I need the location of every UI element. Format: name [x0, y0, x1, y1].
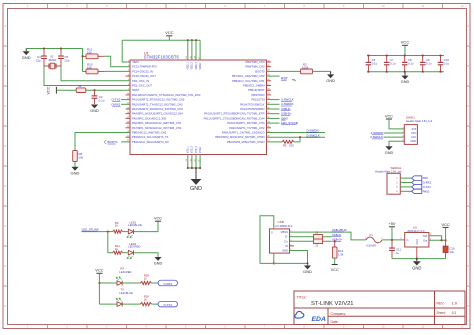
- svg-text:GND: GND: [410, 139, 416, 143]
- wire U1 to D-SWDIO: [267, 132, 326, 134]
- junction dot C3 top: [94, 89, 96, 91]
- svg-text:VDD_1: VDD_1: [188, 61, 190, 69]
- svg-text:PA8/USART1_CK/TIM1_CH1/MCO: PA8/USART1_CK/TIM1_CH1/MCO: [222, 131, 265, 135]
- net label O-RX1 (U1 left): [121, 103, 130, 105]
- junction dot D-SWCLK / R5: [299, 136, 301, 138]
- frame ticks left: [3, 46, 8, 286]
- net label 3-SWDIO (U1 right): [267, 103, 280, 105]
- svg-text:1.0: 1.0: [452, 300, 458, 305]
- net flag O-RX1: [158, 280, 177, 286]
- svg-text:G: G: [271, 231, 273, 234]
- junction dot USB gnd: [307, 263, 309, 265]
- svg-text:PA9: PA9: [423, 176, 429, 180]
- title block row divider: [294, 307, 465, 309]
- svg-text:VBUS: VBUS: [281, 230, 289, 234]
- wire U1 to D-SWCLK: [267, 136, 326, 138]
- svg-text:NRST: NRST: [132, 88, 140, 92]
- svg-text:CLK: CLK: [411, 135, 416, 139]
- capacitor C6: [367, 56, 369, 63]
- USB pin numbers: [290, 231, 292, 251]
- svg-text:PB9/TIM4_CH4: PB9/TIM4_CH4: [245, 60, 265, 64]
- wire VCC to R6: [56, 89, 76, 91]
- svg-text:AMS1117-3.3: AMS1117-3.3: [407, 229, 425, 233]
- USB pin names: [281, 230, 289, 252]
- svg-text:VDD_2: VDD_2: [192, 61, 194, 69]
- svg-text:PA6/SPI1_MISO/ADC12_IN6/TIM3_C: PA6/SPI1_MISO/ADC12_IN6/TIM3_CH1: [132, 121, 182, 125]
- U1 bottom pin names VSS: [188, 145, 202, 153]
- wire R2 to ground: [313, 70, 331, 72]
- svg-text:GND: GND: [326, 79, 335, 83]
- svg-text:GND: GND: [303, 269, 312, 274]
- junction dot VCC column: [445, 239, 447, 241]
- svg-text:PA11/USART1_CTS/USBDM/CAN_RX/T: PA11/USART1_CTS/USBDM/CAN_RX/TIM1_CH4: [204, 116, 265, 120]
- frame section numbers top: [27, 5, 464, 8]
- capacitor C11: [391, 240, 393, 248]
- wire VCC stem: [168, 36, 170, 40]
- capacitor C8: [404, 56, 406, 63]
- wire branch down to TX LED: [98, 283, 100, 304]
- wire R15 to U1: [104, 70, 130, 72]
- svg-text:VCC: VCC: [401, 40, 410, 45]
- svg-text:ID: ID: [285, 244, 288, 248]
- svg-text:3V3: 3V3: [412, 127, 417, 131]
- EDA logo cloud: [295, 311, 304, 318]
- svg-text:BOOT1: BOOT1: [108, 140, 119, 144]
- U1 right pin numbers: [267, 60, 270, 142]
- svg-text:VCC: VCC: [95, 268, 103, 273]
- wire VCC down to out node: [445, 227, 447, 240]
- svg-text:O-TX1: O-TX1: [423, 185, 432, 189]
- svg-text:0.1u: 0.1u: [426, 61, 432, 65]
- wire regulator ground rail: [392, 258, 446, 260]
- svg-text:PB8/TIM4_CH3: PB8/TIM4_CH3: [245, 65, 265, 69]
- junction dot regulator gnd: [416, 258, 418, 260]
- frame section letters left: [4, 25, 6, 308]
- power flag VCC (cap bank): [402, 44, 408, 46]
- svg-text:10k: 10k: [87, 51, 92, 55]
- svg-text:USB-D-: USB-D-: [281, 107, 291, 111]
- svg-text:VCC: VCC: [331, 268, 339, 272]
- svg-text:PB3/JTDO: PB3/JTDO: [252, 93, 265, 97]
- net label 3-SWCLK (SWD1): [384, 136, 405, 138]
- power flag VCC (regulator output): [443, 226, 449, 228]
- svg-text:PA1/USART2_RTS/ADC12_IN1/TIM2_: PA1/USART2_RTS/ADC12_IN1/TIM2_CH2: [132, 98, 185, 102]
- title block rev column divider: [434, 291, 436, 325]
- ground GND (LED2): [154, 257, 161, 261]
- net label LED_STLINK (U1 right): [267, 122, 280, 124]
- svg-text:PB4/JNTRST: PB4/JNTRST: [248, 88, 265, 92]
- net label 3-SWCLK (U1 right): [267, 99, 280, 101]
- capacitor C7: [386, 56, 388, 63]
- svg-text:Out: Out: [423, 238, 428, 242]
- wire branch down to R11: [107, 232, 109, 253]
- svg-text:C: C: [467, 105, 469, 108]
- svg-text:LED-RED: LED-RED: [119, 270, 131, 274]
- svg-text:LED-RED: LED-RED: [128, 245, 140, 249]
- svg-text:0.1u: 0.1u: [444, 61, 450, 65]
- svg-text:LED-BLUE: LED-BLUE: [119, 291, 133, 295]
- svg-text:LED_STLINK: LED_STLINK: [82, 227, 99, 231]
- capacitor C5: [60, 49, 62, 57]
- U1 top pin names VDD: [188, 61, 202, 69]
- U1 left pin names: [132, 60, 201, 144]
- svg-text:PA15/JTDI: PA15/JTDI: [252, 98, 265, 102]
- net flag O-TX1: [158, 301, 177, 307]
- net label USB-D+ (U1 right): [267, 113, 280, 115]
- wire gnd rail to caps: [26, 48, 82, 50]
- USB ID pin stub: [290, 245, 295, 247]
- svg-text:1/1: 1/1: [452, 311, 457, 315]
- svg-text:R5: R5: [283, 144, 287, 148]
- svg-text:PA10/USART1_RX/TIM1_CH3: PA10/USART1_RX/TIM1_CH3: [227, 121, 265, 125]
- wire R26 to O-TX1 flag: [152, 303, 159, 305]
- wire VCC to SWD1 pin1: [389, 119, 404, 129]
- svg-text:VCC: VCC: [441, 222, 450, 227]
- capacitor C3: [94, 90, 96, 96]
- svg-text:PA3/USART2_RX/ADC12_IN3/TIM2_C: PA3/USART2_RX/ADC12_IN3/TIM2_CH4: [132, 107, 183, 111]
- wire USB GND pin down: [290, 251, 308, 266]
- wire R5 up to D-SWCLK: [294, 137, 300, 142]
- wire VCC rail: [122, 39, 200, 41]
- wire U1 to R2: [267, 70, 301, 72]
- svg-text:0.5A/6V: 0.5A/6V: [366, 244, 376, 248]
- SERIAL pin numbers: [396, 177, 398, 193]
- svg-text:1.5k: 1.5k: [338, 253, 344, 257]
- net label USB-D- (U1 right): [267, 108, 280, 110]
- net label SWO (U1 right): [267, 117, 280, 119]
- connector SWD1 body: [404, 125, 417, 145]
- svg-text:PB15/SPI2_MOSI/I2S2_SD/TIM1_CH: PB15/SPI2_MOSI/I2S2_SD/TIM1_CH3N: [215, 135, 264, 139]
- wire VCC rail drop to U1 VBAT: [122, 40, 130, 62]
- wire R28 to O-RX1 flag: [152, 282, 159, 284]
- svg-text:GND: GND: [90, 109, 99, 113]
- resistor R26: [140, 303, 151, 306]
- svg-text:D-SWCLK: D-SWCLK: [307, 133, 320, 137]
- net flag O-RX1: [412, 180, 422, 184]
- wire U1 to R5: [267, 141, 283, 143]
- svg-text:H: H: [467, 305, 469, 308]
- svg-text:PB7/I2C1_SDA/TIM4_CH2: PB7/I2C1_SDA/TIM4_CH2: [232, 74, 265, 78]
- svg-text:BOOT0: BOOT0: [255, 69, 265, 73]
- title block company/date divider: [328, 315, 465, 317]
- svg-text:+5V: +5V: [388, 221, 395, 226]
- svg-text:0.1u: 0.1u: [99, 98, 105, 102]
- wire USB D+ row: [290, 240, 332, 242]
- net flag PA9: [412, 176, 422, 180]
- net label 3-SWDIO (SWD1): [384, 132, 405, 134]
- svg-text:3-SWDIO: 3-SWDIO: [281, 102, 294, 106]
- wire SWD1 GND pin to ground: [389, 141, 404, 146]
- capacitor C16 (tantalum): [445, 240, 447, 246]
- U1 left pin numbers: [127, 60, 130, 142]
- svg-text:PA4/SPI1_NSS/USART2_CK/ADC12_I: PA4/SPI1_NSS/USART2_CK/ADC12_IN4: [132, 112, 183, 116]
- op-amp U1 body (STM32F103CBT6 MCU): [130, 60, 267, 155]
- wire R14 to VCC flag: [334, 258, 336, 264]
- svg-text:PA0-WKUP/USART2_CTS/ADC12_IN0/: PA0-WKUP/USART2_CTS/ADC12_IN0/TIM2_CH1_E…: [132, 93, 201, 97]
- title block outline: [294, 291, 465, 325]
- svg-text:100k: 100k: [302, 66, 309, 70]
- U1 left pin stubs: [126, 76, 131, 137]
- ground GND (R2): [327, 74, 334, 78]
- resistor R12: [83, 55, 87, 57]
- wires VCC rail to U1 VDD pins: [187, 40, 189, 60]
- svg-text:G: G: [4, 265, 6, 268]
- resistor R14: [332, 247, 337, 258]
- wire cap bank rail to ground: [404, 72, 406, 76]
- wire VSS to ground symbol: [195, 168, 197, 179]
- svg-text:G: G: [467, 265, 469, 268]
- junction dot C4 top: [43, 48, 45, 50]
- svg-text:USB-D+: USB-D+: [332, 238, 343, 242]
- svg-text:GND: GND: [71, 171, 80, 176]
- svg-text:VCC: VCC: [154, 216, 162, 221]
- wire VCC to RX LED: [98, 273, 100, 283]
- net label RST: [267, 75, 280, 77]
- svg-text:D+: D+: [284, 239, 288, 243]
- svg-text:10k: 10k: [87, 66, 92, 70]
- svg-text:PC14-OSC32_IN: PC14-OSC32_IN: [132, 69, 153, 73]
- wire crystal right node to U1 OSC pin: [61, 66, 130, 81]
- ground GND (USB): [304, 266, 311, 270]
- capacitor C4: [43, 49, 45, 57]
- svg-text:0.1u: 0.1u: [390, 61, 396, 65]
- wire U3 Tab to output node: [429, 236, 442, 241]
- svg-text:Sheet:: Sheet:: [437, 311, 446, 315]
- LED RX (red): [117, 281, 122, 286]
- svg-text:O-TX1: O-TX1: [112, 98, 121, 102]
- wire LED2 to ground: [134, 253, 159, 257]
- svg-text:PA14/JTCK/SWCLK: PA14/JTCK/SWCLK: [240, 102, 265, 106]
- svg-text:D: D: [467, 145, 469, 148]
- svg-text:PA9/USART1_TX/TIM1_CH2: PA9/USART1_TX/TIM1_CH2: [229, 126, 265, 130]
- svg-text:PB14/SPI2_MISO/TIM1_CH2N: PB14/SPI2_MISO/TIM1_CH2N: [227, 140, 265, 144]
- svg-text:PA7/SPI1_MOSI/ADC12_IN7/TIM3_C: PA7/SPI1_MOSI/ADC12_IN7/TIM3_CH2: [132, 126, 182, 130]
- wire R11 to LED2: [123, 252, 129, 254]
- wire R6 to U1 NRST: [86, 89, 130, 91]
- net label O-TX1 (U1 left): [121, 99, 130, 101]
- power flag VCC (RX/TX LEDs): [96, 272, 102, 274]
- svg-text:GND: GND: [22, 55, 31, 60]
- power flag VCC (R14, pointing down): [332, 264, 338, 266]
- svg-text:VCC: VCC: [46, 86, 50, 94]
- svg-text:VSS_1: VSS_1: [188, 145, 190, 153]
- resistor R2: [301, 69, 313, 74]
- svg-text:GND: GND: [154, 262, 163, 266]
- wire USB shell top loop: [260, 216, 274, 264]
- ground GND (C3): [91, 105, 98, 109]
- wire TX LED to R26: [122, 303, 140, 305]
- svg-text:Company:: Company:: [331, 312, 347, 316]
- junction dot LED branch: [107, 231, 109, 233]
- wire USB D- row: [290, 236, 332, 238]
- SWD1 pin names: [410, 127, 416, 143]
- svg-text:TITLE:: TITLE:: [297, 295, 307, 299]
- power flag VCC (SWD1): [386, 118, 392, 120]
- U1 bottom pin numbers: [186, 158, 200, 161]
- svg-text:REV:: REV:: [437, 301, 445, 305]
- svg-text:VDDA: VDDA: [199, 63, 202, 70]
- svg-text:USB-VBUS: USB-VBUS: [332, 228, 347, 232]
- svg-text:22p: 22p: [64, 59, 69, 63]
- svg-text:LED_STLINK: LED_STLINK: [281, 121, 298, 125]
- frame section letters right: [467, 25, 469, 308]
- wire USB shell bottom: [273, 253, 275, 263]
- svg-text:Header-Male 2.54_1x4: Header-Male 2.54_1x4: [406, 119, 433, 123]
- resistor R15: [83, 70, 87, 72]
- svg-text:VCC: VCC: [385, 113, 393, 118]
- svg-text:C: C: [4, 105, 6, 108]
- svg-text:SERIAL: SERIAL: [391, 166, 402, 170]
- SWD1 pin numbers: [402, 127, 404, 141]
- wire USB ground rail: [260, 262, 308, 264]
- svg-text:D-: D-: [285, 235, 288, 239]
- wire F1 to regulator: [382, 239, 405, 241]
- frame ticks top: [48, 4, 443, 9]
- svg-text:PD1_OSC_OUT: PD1_OSC_OUT: [132, 84, 152, 88]
- regulator U3 body: [405, 233, 429, 248]
- svg-text:Tab: Tab: [423, 234, 428, 238]
- wire to RX LED: [99, 282, 117, 284]
- svg-text:ST-LINK V2/V21: ST-LINK V2/V21: [311, 301, 354, 307]
- svg-text:GND: GND: [190, 186, 202, 192]
- svg-text:PA2/USART2_TX/ADC12_IN2/TIM2_C: PA2/USART2_TX/ADC12_IN2/TIM2_CH3: [132, 102, 183, 106]
- resistor R8: [73, 151, 78, 162]
- frame section numbers bottom: [27, 326, 464, 329]
- wire gnd rail drop to R12/R15: [82, 49, 84, 72]
- svg-text:PA13/JTMS/SWDIO: PA13/JTMS/SWDIO: [240, 107, 264, 111]
- svg-text:VDD_3: VDD_3: [196, 61, 198, 69]
- svg-text:H: H: [4, 305, 6, 308]
- svg-text:Date:: Date:: [331, 320, 339, 324]
- wire R9 to LED1: [123, 231, 129, 233]
- wire cap bank top rail: [367, 55, 444, 57]
- junction dot R12 left: [82, 55, 84, 57]
- svg-text:D-SWDIO: D-SWDIO: [307, 129, 321, 133]
- resistor R28: [140, 281, 151, 284]
- svg-text:SWD1: SWD1: [406, 116, 415, 120]
- svg-text:EDA: EDA: [312, 316, 326, 323]
- junction dot +5V node: [391, 239, 393, 241]
- frame ticks right: [467, 46, 471, 286]
- junction dot R14 top: [334, 240, 336, 242]
- svg-text:DIO: DIO: [412, 131, 417, 135]
- junction dots cap bank bottom rail: [368, 71, 370, 73]
- svg-text:8MHz: 8MHz: [49, 58, 57, 62]
- resistor R9: [113, 230, 123, 233]
- svg-text:VBAT: VBAT: [132, 60, 139, 64]
- wire U3 Out to VCC node: [429, 239, 446, 241]
- wire D+ to R14: [334, 241, 336, 247]
- svg-text:0.1u: 0.1u: [408, 61, 414, 65]
- svg-text:1u: 1u: [396, 251, 400, 255]
- svg-text:PA12/USART1_RTS/USBDP/CAN_TX/T: PA12/USART1_RTS/USBDP/CAN_TX/TIM1_ETR: [204, 112, 264, 116]
- ground GND (U1 VSS): [191, 179, 202, 185]
- wire SERIAL pin to flag PA10: [400, 190, 411, 192]
- resistor R6: [76, 88, 86, 93]
- svg-text:F1: F1: [370, 233, 374, 237]
- wire LED1 to VCC: [134, 221, 159, 231]
- svg-text:PA5/SPI1_SCK/ADC12_IN5: PA5/SPI1_SCK/ADC12_IN5: [132, 116, 166, 120]
- svg-text:VCC: VCC: [165, 30, 174, 35]
- svg-text:U-F-M5DD-W-F: U-F-M5DD-W-F: [275, 225, 293, 228]
- capacitor C10: [440, 56, 442, 63]
- svg-text:22p: 22p: [36, 59, 41, 63]
- junction dot U3 out: [441, 239, 443, 241]
- svg-text:VSS_2: VSS_2: [192, 145, 194, 153]
- net flag O-TX1: [412, 185, 422, 189]
- svg-text:O-RX1: O-RX1: [163, 282, 172, 286]
- ground GND (SWD1): [385, 146, 392, 150]
- wire U1 to R8: [75, 133, 130, 151]
- svg-text:GND: GND: [416, 239, 419, 245]
- wire cap bank bottom rail: [367, 71, 444, 73]
- crystal X1: [44, 65, 49, 67]
- svg-text:VSSA: VSSA: [199, 147, 202, 154]
- svg-text:GND: GND: [412, 265, 421, 270]
- svg-text:USB-D+: USB-D+: [281, 112, 292, 116]
- U1 right pin stubs: [267, 62, 272, 128]
- svg-text:O-RX1: O-RX1: [423, 181, 432, 185]
- U1 right pin names: [204, 60, 265, 144]
- power flag +5V: [389, 226, 395, 228]
- title block logo cell divider: [327, 308, 329, 325]
- svg-text:PC13-TAMPER-RTC: PC13-TAMPER-RTC: [132, 65, 157, 69]
- ground GND (R8): [71, 167, 78, 171]
- power flag VCC (above U1): [166, 35, 172, 37]
- junction dots cap bank top rail: [368, 55, 370, 57]
- LED LED2 (red): [128, 250, 133, 255]
- power flag VCC (LED1): [155, 220, 161, 222]
- net flag PA10: [412, 189, 422, 193]
- junction dots on VCC rail: [187, 39, 189, 41]
- svg-text:10k: 10k: [79, 155, 84, 159]
- svg-text:STM32F103CBT6: STM32F103CBT6: [144, 55, 180, 60]
- svg-text:PB0/ADC12_IN8/TIM3_CH3: PB0/ADC12_IN8/TIM3_CH3: [132, 131, 167, 135]
- svg-text:3-SWCLK: 3-SWCLK: [281, 98, 294, 102]
- svg-text:VSS_3: VSS_3: [196, 145, 198, 153]
- svg-text:PB6/I2C1_SCL/TIM4_CH1: PB6/I2C1_SCL/TIM4_CH1: [232, 79, 265, 83]
- LED LED1 (blue): [128, 229, 133, 234]
- svg-text:PB11/I2C2_SDA/USART3_RX: PB11/I2C2_SDA/USART3_RX: [132, 140, 169, 144]
- LED TX (blue): [117, 302, 122, 307]
- svg-text:SWO: SWO: [281, 116, 289, 120]
- wire SERIAL pin to flag O-TX1: [400, 186, 411, 188]
- svg-text:USB-D-: USB-D-: [332, 233, 342, 237]
- wire gnd rail to ground symbol: [416, 259, 418, 262]
- wire to TX LED: [99, 303, 117, 305]
- svg-text:0.1u: 0.1u: [372, 61, 378, 65]
- ground GND (regulator): [413, 261, 421, 265]
- net port flag BOOT1 (U1 left): [104, 140, 106, 144]
- ground GND (cap bank): [401, 76, 408, 80]
- svg-text:PC15-OSC32_OUT: PC15-OSC32_OUT: [132, 74, 156, 78]
- wire SERIAL pin to flag O-RX1: [400, 182, 411, 184]
- U1 top pin numbers: [186, 55, 200, 58]
- svg-text:GND: GND: [401, 80, 410, 84]
- resistor R11: [113, 251, 123, 254]
- wire +5V stem: [391, 227, 393, 240]
- junction dot C5 top: [60, 48, 62, 50]
- wire R12 to U1: [104, 56, 130, 66]
- frame ticks bottom: [48, 325, 443, 329]
- svg-text:USB: USB: [278, 220, 284, 224]
- junction dots VSS: [187, 167, 189, 169]
- fuse F1: [366, 237, 382, 243]
- resistor network R3/R4 22ohm: [314, 235, 323, 244]
- wire U3 GND pin down: [416, 247, 418, 259]
- svg-text:10u: 10u: [449, 250, 454, 254]
- svg-text:100: 100: [289, 144, 294, 148]
